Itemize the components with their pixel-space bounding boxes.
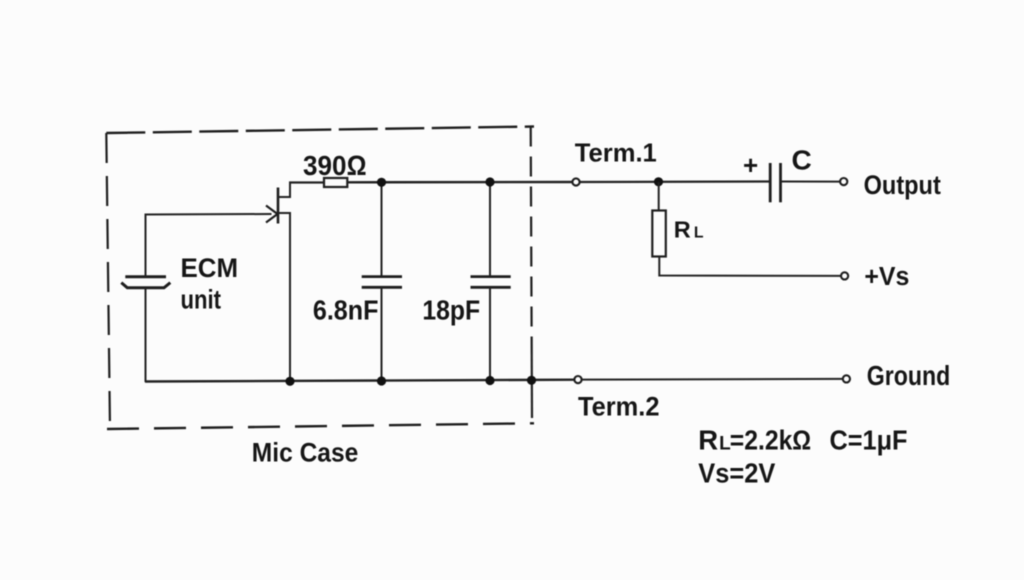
wire capsule bottom to ground rail	[145, 288, 147, 382]
svg-text:+Vs: +Vs	[864, 263, 909, 291]
mic case dashed enclosure left border	[106, 133, 110, 429]
resistor RL body	[652, 211, 666, 257]
junction dot top rail at C2	[485, 177, 494, 186]
ground rail inside case	[145, 380, 575, 382]
wire gate horizontal to JFET	[145, 213, 272, 216]
svg-text:C=1μF: C=1μF	[830, 425, 908, 456]
capacitor C1 6.8nF top wire	[381, 182, 383, 277]
svg-text:R: R	[674, 216, 691, 242]
svg-text:Ground: Ground	[867, 360, 951, 391]
svg-text:ECM: ECM	[181, 253, 239, 283]
junction dot ground rail at C1	[377, 376, 386, 385]
capacitor C1 6.8nF bottom wire	[381, 287, 383, 382]
svg-text:390Ω: 390Ω	[303, 150, 367, 181]
transistor Q1 JFET channel bar	[277, 188, 280, 224]
wire RL bottom to +Vs	[659, 257, 841, 276]
svg-text:Term.1: Term.1	[575, 137, 657, 167]
junction dot top rail at RL branch	[654, 177, 663, 186]
wire case stub to ground rail	[531, 352, 533, 418]
svg-text:+: +	[743, 150, 758, 180]
svg-text:18pF: 18pF	[422, 294, 480, 325]
svg-text:6.8nF: 6.8nF	[313, 294, 379, 325]
wire gate vertical from capsule up	[145, 215, 147, 277]
electret capsule top plate	[125, 275, 166, 278]
terminal +Vs open circle	[841, 272, 848, 279]
mic case dashed enclosure right border	[531, 127, 532, 353]
svg-text:Vs=2V: Vs=2V	[698, 458, 775, 489]
terminal Term.2 open circle	[574, 376, 581, 383]
capacitor C right plate	[779, 163, 782, 202]
wire RL branch down	[658, 182, 660, 211]
svg-text:R: R	[698, 425, 718, 456]
wire top rail Term.1 circle to capacitor C	[579, 180, 770, 183]
wire C right plate to Output	[781, 181, 841, 183]
terminal Output open circle	[840, 178, 847, 185]
capacitor C2 18pF bottom wire	[489, 287, 491, 381]
junction dot top rail at C1	[377, 178, 386, 187]
wire top rail resistor to Term.1 circle	[347, 181, 573, 184]
capacitor C2 18pF bottom plate	[471, 286, 511, 289]
electret capsule bent bottom plate	[121, 283, 170, 288]
svg-text:C: C	[792, 144, 812, 175]
junction dot ground rail at C2	[485, 376, 494, 385]
ground rail Term.2 to Ground circle	[581, 378, 843, 381]
transistor Q1 source lead	[278, 213, 290, 382]
capacitor C left plate	[769, 163, 772, 202]
svg-text:unit: unit	[181, 285, 222, 315]
resistor 390ohm body	[324, 178, 347, 187]
mic case dashed enclosure bottom border	[107, 423, 534, 429]
svg-text:Term.2: Term.2	[578, 391, 660, 421]
mic case dashed enclosure top border	[106, 127, 534, 134]
capacitor C1 6.8nF bottom plate	[362, 286, 402, 289]
capacitor C2 18pF top wire	[489, 182, 491, 277]
capacitor C2 18pF top plate	[471, 275, 511, 278]
wire drain to resistor R 390	[289, 181, 325, 183]
capacitor C1 6.8nF top plate	[362, 275, 402, 278]
junction dot ground rail at source	[285, 377, 294, 386]
transistor Q1 gate arrowhead	[266, 206, 278, 223]
transistor Q1 drain lead	[278, 182, 290, 198]
svg-text:L: L	[694, 224, 704, 241]
svg-text:=2.2kΩ: =2.2kΩ	[730, 425, 812, 456]
terminal Ground open circle	[843, 375, 850, 382]
svg-text:Output: Output	[864, 170, 941, 200]
terminal Term.1 open circle	[572, 178, 579, 185]
junction dot ground rail at case border	[527, 376, 536, 385]
svg-text:Mic Case: Mic Case	[252, 438, 358, 468]
